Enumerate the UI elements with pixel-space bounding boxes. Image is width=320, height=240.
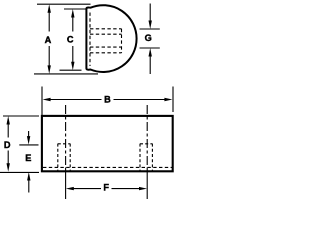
svg-text:G: G	[145, 33, 152, 43]
svg-text:D: D	[4, 140, 11, 150]
svg-text:A: A	[45, 35, 52, 45]
svg-text:B: B	[104, 95, 111, 105]
svg-text:C: C	[67, 34, 74, 44]
svg-text:E: E	[25, 153, 31, 163]
svg-text:F: F	[103, 183, 109, 193]
